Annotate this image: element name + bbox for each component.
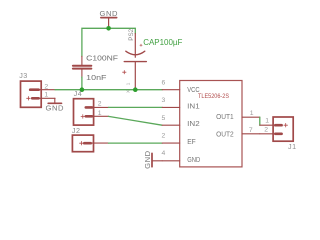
op-amp driver IC U1 TLE5206-2S box: [180, 81, 242, 167]
node junction C1/rail: [80, 87, 85, 92]
svg-text:J3: J3: [19, 71, 28, 80]
pin U1-2 EF stub: [162, 142, 180, 144]
svg-text:2: 2: [162, 132, 166, 139]
pin U1-3 IN1 stub: [162, 106, 180, 108]
svg-text:EF: EF: [187, 137, 196, 146]
ground GND3 (at IC pin 4, rotated): [143, 150, 162, 169]
pin U1-1 OUT1 stub: [242, 116, 260, 118]
svg-text:1: 1: [250, 110, 254, 117]
svg-text:GND: GND: [143, 150, 152, 169]
svg-text:1: 1: [126, 82, 131, 85]
svg-text:J4: J4: [74, 89, 83, 98]
capacitor C1 C100NF: [73, 53, 119, 82]
svg-text:2: 2: [44, 84, 48, 91]
connector J2: [72, 126, 109, 152]
svg-text:TLE5206-2S: TLE5206-2S: [198, 93, 230, 100]
svg-text:IN1: IN1: [187, 101, 200, 110]
svg-text:1: 1: [44, 92, 48, 99]
wire J4 pin2 to IC IN1 (row 3): [109, 106, 163, 108]
connector J1: [260, 117, 297, 151]
svg-text:PS2: PS2: [128, 28, 135, 40]
wire J4 pin1 diagonal to IC IN2: [109, 116, 163, 125]
ground GND1 (top): [100, 9, 119, 28]
connector J3: [19, 71, 55, 107]
svg-text:1: 1: [265, 118, 269, 125]
svg-text:J2: J2: [72, 126, 81, 135]
svg-text:2: 2: [264, 127, 268, 134]
connector J4: [74, 89, 109, 125]
svg-text:4: 4: [162, 150, 166, 157]
svg-text:10nF: 10nF: [86, 73, 107, 82]
wire J2 pin to IC EF (row 7): [109, 142, 163, 144]
pin U1-4 GND stub: [162, 160, 180, 162]
svg-text:OUT2: OUT2: [216, 130, 234, 139]
svg-text:3: 3: [162, 97, 166, 104]
wire OUT1 jog to J1 pin1: [259, 117, 261, 125]
node junction C2/rail: [133, 87, 138, 92]
ground GND2 (below J3): [46, 98, 65, 112]
svg-text:J1: J1: [288, 142, 297, 151]
pin U1-5 IN2 stub: [162, 124, 180, 126]
svg-text:6: 6: [162, 79, 166, 86]
svg-text:7: 7: [249, 127, 253, 134]
svg-text:C100NF: C100NF: [86, 53, 118, 62]
wire VCC top rail: [82, 28, 135, 56]
svg-text:GND: GND: [46, 103, 65, 112]
svg-text:GND: GND: [100, 9, 119, 18]
svg-text:5: 5: [162, 115, 166, 122]
pin U1-6 VCC stub: [162, 89, 180, 91]
pin U1-7 OUT2 stub: [242, 133, 260, 135]
svg-text:2: 2: [98, 101, 102, 108]
node junction on top rail: [106, 26, 111, 31]
svg-text:OUT1: OUT1: [216, 112, 234, 121]
svg-text:GND: GND: [187, 155, 200, 164]
svg-text:CAP100µF: CAP100µF: [143, 37, 182, 47]
wire net from J3 pin2 to IC VCC (row 1): [55, 89, 162, 91]
svg-text:X: X: [126, 90, 131, 93]
svg-text:1: 1: [98, 110, 102, 117]
wire C1 bottom to rail: [81, 77, 83, 90]
svg-text:IN2: IN2: [187, 119, 200, 128]
capacitor C2 polarized CAP100uF: [123, 28, 183, 93]
